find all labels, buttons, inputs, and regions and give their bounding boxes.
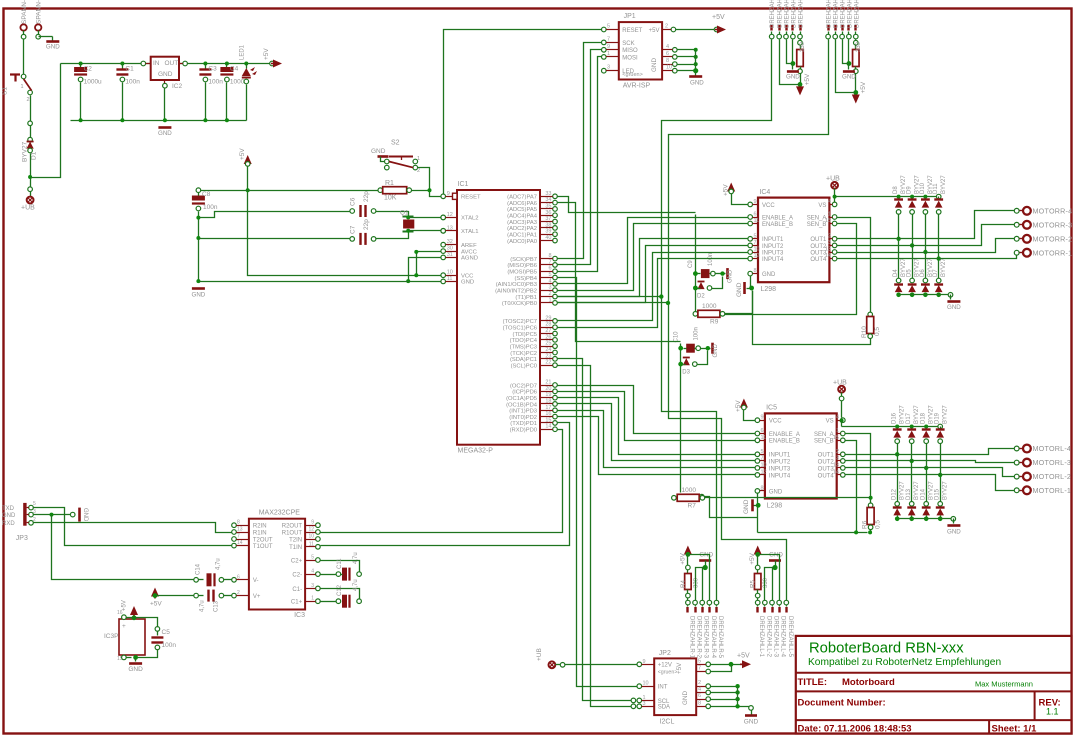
svg-text:13: 13 <box>237 527 243 533</box>
svg-text:JP3: JP3 <box>16 535 28 542</box>
svg-text:35: 35 <box>545 203 551 209</box>
svg-text:INPUT1: INPUT1 <box>769 453 791 459</box>
svg-text:T2IN: T2IN <box>289 537 302 543</box>
svg-text:(MISO)PB6: (MISO)PB6 <box>507 263 537 269</box>
svg-text:BYV27: BYV27 <box>914 481 920 500</box>
svg-text:Sheet: 1/1: Sheet: 1/1 <box>992 724 1038 735</box>
svg-text:MISO: MISO <box>622 48 638 54</box>
svg-text:D9: D9 <box>907 186 913 194</box>
svg-text:IC4: IC4 <box>759 189 770 196</box>
svg-text:DREHZAHLR-4: DREHZAHLR-4 <box>791 0 797 28</box>
svg-text:D10: D10 <box>920 182 926 194</box>
svg-text:0,5: 0,5 <box>875 520 882 529</box>
svg-text:GND: GND <box>744 719 759 726</box>
svg-text:C3: C3 <box>208 66 217 73</box>
svg-text:C2-: C2- <box>292 573 302 579</box>
svg-text:22p: 22p <box>363 191 370 202</box>
svg-text:C10: C10 <box>673 331 679 343</box>
svg-text:20: 20 <box>545 386 551 392</box>
svg-text:D7: D7 <box>933 269 939 277</box>
svg-text:GND: GND <box>682 691 689 705</box>
svg-text:4: 4 <box>311 569 314 575</box>
svg-text:(OC1B)PD4: (OC1B)PD4 <box>506 402 538 408</box>
svg-text:<gruen>: <gruen> <box>658 670 678 676</box>
svg-text:DREHZAHLL-4: DREHZAHLL-4 <box>847 0 853 28</box>
svg-text:1: 1 <box>417 156 420 162</box>
svg-text:BYV27: BYV27 <box>943 481 949 500</box>
svg-text:ENABLE_B: ENABLE_B <box>769 439 800 445</box>
svg-text:OUT1: OUT1 <box>818 453 835 459</box>
svg-text:1000u: 1000u <box>84 79 102 86</box>
svg-text:2: 2 <box>665 24 668 30</box>
svg-text:12: 12 <box>761 469 767 475</box>
svg-text:10: 10 <box>308 534 314 540</box>
svg-text:C1-: C1- <box>292 587 302 593</box>
svg-text:+UB: +UB <box>833 380 847 387</box>
svg-text:DREHZAHLL-1: DREHZAHLL-1 <box>758 616 764 658</box>
svg-text:INPUT3: INPUT3 <box>769 466 791 472</box>
svg-text:C1: C1 <box>125 66 134 73</box>
svg-text:R7: R7 <box>688 503 697 510</box>
svg-text:4,7u: 4,7u <box>353 579 359 591</box>
svg-text:7: 7 <box>548 259 551 265</box>
svg-text:+5V: +5V <box>749 552 756 564</box>
svg-text:MEGA32-P: MEGA32-P <box>458 448 494 455</box>
svg-text:32: 32 <box>447 239 453 245</box>
svg-text:OUT4: OUT4 <box>818 473 835 479</box>
svg-text:R1IN: R1IN <box>253 530 267 536</box>
svg-text:(TOSC1)PC6: (TOSC1)PC6 <box>503 326 537 332</box>
svg-text:(TMS)PC3: (TMS)PC3 <box>510 344 537 350</box>
svg-text:+5V: +5V <box>263 48 270 60</box>
svg-text:BYV27: BYV27 <box>941 258 947 277</box>
svg-text:3: 3 <box>311 583 314 589</box>
svg-text:ENABLE_A: ENABLE_A <box>762 215 793 221</box>
svg-text:D5: D5 <box>907 269 913 277</box>
svg-text:SPANN-2: SPANN-2 <box>36 0 43 24</box>
svg-text:GND: GND <box>158 71 173 78</box>
svg-text:VCC: VCC <box>769 419 782 425</box>
svg-text:(AIN0/INT2)PB2: (AIN0/INT2)PB2 <box>495 289 537 295</box>
svg-text:34: 34 <box>545 197 551 203</box>
svg-text:D4: D4 <box>893 269 899 277</box>
svg-text:VS: VS <box>818 203 826 209</box>
svg-text:10K: 10K <box>384 195 397 202</box>
svg-text:C6: C6 <box>350 197 357 206</box>
svg-text:AGND: AGND <box>461 256 478 262</box>
svg-text:R10: R10 <box>861 326 868 338</box>
svg-text:GND: GND <box>46 44 60 51</box>
svg-text:4: 4 <box>666 44 669 50</box>
svg-text:(OC2)PD7: (OC2)PD7 <box>510 383 537 389</box>
svg-text:2: 2 <box>698 680 701 686</box>
svg-text:R6: R6 <box>862 520 869 529</box>
svg-text:T1IN: T1IN <box>289 545 302 551</box>
svg-text:31: 31 <box>447 252 453 258</box>
svg-text:VS: VS <box>826 419 834 425</box>
svg-text:11: 11 <box>309 541 314 547</box>
svg-text:DREHZAHLR-4: DREHZAHLR-4 <box>710 616 716 659</box>
svg-text:SPANN-1: SPANN-1 <box>21 0 28 24</box>
svg-text:10: 10 <box>754 247 760 253</box>
svg-text:+5V: +5V <box>860 81 867 93</box>
svg-text:BYV27: BYV27 <box>900 405 906 424</box>
svg-text:DREHZAHLL-2: DREHZAHLL-2 <box>834 0 840 28</box>
svg-text:36: 36 <box>545 210 551 216</box>
svg-text:16: 16 <box>545 411 551 417</box>
svg-text:DREHZAHLL-3: DREHZAHLL-3 <box>841 0 847 28</box>
svg-text:5: 5 <box>548 272 551 278</box>
svg-text:4: 4 <box>548 278 551 284</box>
svg-text:D1: D1 <box>31 151 38 160</box>
svg-text:BYV27: BYV27 <box>22 141 29 162</box>
svg-text:MOTORL-3: MOTORL-3 <box>1033 458 1072 467</box>
svg-text:(SDA)PC1: (SDA)PC1 <box>510 357 537 363</box>
svg-text:5: 5 <box>607 24 610 30</box>
svg-text:R5: R5 <box>750 580 757 588</box>
svg-text:SCK: SCK <box>622 41 634 47</box>
svg-text:(TCK)PC2: (TCK)PC2 <box>510 351 537 357</box>
svg-text:4: 4 <box>698 686 701 692</box>
svg-text:INPUT3: INPUT3 <box>762 250 784 256</box>
svg-text:(TXD)PD1: (TXD)PD1 <box>510 421 537 427</box>
svg-text:(ADC4)PA4: (ADC4)PA4 <box>507 214 538 220</box>
svg-text:C9: C9 <box>688 260 694 268</box>
svg-text:MOTORL-2: MOTORL-2 <box>1033 472 1072 481</box>
svg-text:(ICP)PD6: (ICP)PD6 <box>512 390 537 396</box>
svg-text:RESET: RESET <box>622 28 642 34</box>
svg-text:+UB: +UB <box>826 176 840 183</box>
svg-text:1: 1 <box>311 596 314 602</box>
svg-text:+5V: +5V <box>649 28 660 34</box>
svg-text:11: 11 <box>761 435 767 441</box>
svg-text:D17: D17 <box>906 412 912 424</box>
svg-text:(ADC6)PA6: (ADC6)PA6 <box>507 201 537 207</box>
svg-text:D18: D18 <box>921 412 927 424</box>
svg-text:D13: D13 <box>906 488 912 500</box>
svg-text:(SS)PB4: (SS)PB4 <box>514 276 537 282</box>
svg-text:INPUT1: INPUT1 <box>762 237 784 243</box>
svg-text:SEN_A: SEN_A <box>807 215 827 221</box>
svg-text:14: 14 <box>237 540 243 546</box>
svg-text:7: 7 <box>761 455 764 461</box>
svg-text:+5V: +5V <box>737 653 750 660</box>
svg-text:4: 4 <box>828 199 831 205</box>
svg-text:6: 6 <box>548 266 551 272</box>
svg-text:10: 10 <box>447 270 453 276</box>
svg-text:17: 17 <box>545 405 551 411</box>
svg-text:9: 9 <box>447 191 450 197</box>
svg-text:13: 13 <box>447 225 453 231</box>
svg-text:MOTORR-2: MOTORR-2 <box>1033 234 1073 243</box>
svg-text:BYV27: BYV27 <box>900 481 906 500</box>
svg-text:GND: GND <box>947 304 961 311</box>
svg-text:5: 5 <box>754 233 757 239</box>
svg-text:100n: 100n <box>203 204 218 211</box>
svg-text:GND: GND <box>736 282 743 297</box>
svg-text:6: 6 <box>698 693 701 699</box>
svg-text:(TDO)PC4: (TDO)PC4 <box>510 338 538 344</box>
svg-text:14: 14 <box>545 424 551 430</box>
svg-text:(SCK)PB7: (SCK)PB7 <box>510 257 537 263</box>
svg-text:11: 11 <box>447 276 453 282</box>
svg-text:BYV27: BYV27 <box>914 405 920 424</box>
svg-text:(INT1)PD3: (INT1)PD3 <box>509 409 537 415</box>
svg-text:GND: GND <box>158 130 172 137</box>
svg-text:ENABLE_B: ENABLE_B <box>762 222 793 228</box>
svg-text:ENABLE_A: ENABLE_A <box>769 432 800 438</box>
svg-text:V-: V- <box>253 578 259 584</box>
svg-text:XTAL1: XTAL1 <box>461 229 479 235</box>
svg-text:Motorboard: Motorboard <box>842 677 895 688</box>
svg-text:IC3P: IC3P <box>104 633 118 640</box>
svg-text:(OC1A)PD5: (OC1A)PD5 <box>506 396 537 402</box>
svg-text:Kompatibel zu RoboterNetz Empf: Kompatibel zu RoboterNetz Empfehlungen <box>808 657 1001 668</box>
svg-text:C2+: C2+ <box>291 558 303 564</box>
svg-text:11: 11 <box>754 218 760 224</box>
svg-text:GND: GND <box>728 269 734 283</box>
svg-text:S1: S1 <box>2 87 9 95</box>
svg-text:(SCL)PC0: (SCL)PC0 <box>511 363 537 369</box>
svg-text:14: 14 <box>833 469 839 475</box>
svg-text:OUT4: OUT4 <box>810 257 827 263</box>
svg-text:INPUT4: INPUT4 <box>769 473 791 479</box>
svg-text:6: 6 <box>761 428 764 434</box>
svg-text:DREHZAHLR-5: DREHZAHLR-5 <box>717 616 723 659</box>
svg-text:2: 2 <box>836 449 839 455</box>
svg-text:SDA: SDA <box>658 705 670 711</box>
svg-text:8: 8 <box>237 520 240 526</box>
svg-text:MOTORR-1: MOTORR-1 <box>1033 248 1073 257</box>
svg-text:D15: D15 <box>935 488 941 500</box>
svg-text:GND: GND <box>713 344 719 358</box>
svg-text:2: 2 <box>237 590 240 596</box>
svg-text:GND: GND <box>461 280 474 286</box>
svg-text:100n: 100n <box>708 253 714 266</box>
svg-text:2: 2 <box>417 168 420 174</box>
svg-text:D14: D14 <box>921 488 927 500</box>
svg-text:10: 10 <box>666 65 672 71</box>
svg-text:D3: D3 <box>682 370 690 376</box>
svg-text:GND: GND <box>762 272 776 278</box>
svg-text:+5V: +5V <box>239 148 246 160</box>
svg-text:7: 7 <box>607 36 610 42</box>
svg-text:DREHZAHLL-3: DREHZAHLL-3 <box>773 616 779 658</box>
svg-text:1: 1 <box>607 51 610 57</box>
svg-text:330: 330 <box>693 577 699 588</box>
svg-text:C2: C2 <box>84 66 93 73</box>
svg-text:26: 26 <box>545 334 551 340</box>
svg-text:GND: GND <box>192 292 206 299</box>
svg-text:7: 7 <box>237 534 240 540</box>
svg-text:INT: INT <box>658 685 668 691</box>
svg-text:4,7u: 4,7u <box>200 600 206 612</box>
svg-text:Q1: Q1 <box>400 210 409 217</box>
svg-text:DREHZAHLL-5: DREHZAHLL-5 <box>787 616 793 658</box>
svg-text:VCC: VCC <box>762 203 775 209</box>
svg-text:MOTORL-1: MOTORL-1 <box>1033 486 1072 495</box>
svg-text:BYV27: BYV27 <box>943 405 949 424</box>
svg-text:MOTORR-4: MOTORR-4 <box>1033 206 1073 215</box>
svg-text:DREHZAHLR-2: DREHZAHLR-2 <box>696 616 702 659</box>
svg-text:(T1)PB1: (T1)PB1 <box>515 295 537 301</box>
svg-text:GND: GND <box>743 499 750 514</box>
svg-text:5: 5 <box>33 501 36 507</box>
svg-text:4,7u: 4,7u <box>353 552 359 564</box>
svg-text:DREHZAHLR-5: DREHZAHLR-5 <box>799 0 805 28</box>
svg-text:C4: C4 <box>230 66 239 73</box>
svg-text:(INT0)PD2: (INT0)PD2 <box>509 415 537 421</box>
svg-text:6: 6 <box>237 574 240 580</box>
svg-text:IC5: IC5 <box>766 405 777 412</box>
svg-text:+5V: +5V <box>150 601 162 608</box>
svg-text:+UB: +UB <box>536 648 543 661</box>
svg-text:28: 28 <box>545 322 551 328</box>
svg-text:RoboterBoard RBN-xxx: RoboterBoard RBN-xxx <box>809 641 964 657</box>
svg-text:330: 330 <box>800 41 806 52</box>
svg-text:2: 2 <box>27 97 30 103</box>
svg-text:100n: 100n <box>208 79 223 86</box>
svg-text:3: 3 <box>548 285 551 291</box>
svg-text:SEN_A: SEN_A <box>814 432 834 438</box>
svg-text:12: 12 <box>754 253 760 259</box>
svg-text:(ADC0)PA0: (ADC0)PA0 <box>507 239 537 245</box>
svg-text:T2OUT: T2OUT <box>253 537 273 543</box>
svg-text:(RXD)PD0: (RXD)PD0 <box>510 428 537 434</box>
svg-text:10: 10 <box>761 462 767 468</box>
svg-text:R1: R1 <box>385 180 394 187</box>
svg-text:+5V: +5V <box>122 600 128 611</box>
svg-text:25: 25 <box>545 341 551 347</box>
svg-text:D16: D16 <box>892 412 898 424</box>
svg-text:9: 9 <box>607 44 610 50</box>
svg-text:1: 1 <box>836 428 839 434</box>
svg-text:<gruen>: <gruen> <box>622 72 643 78</box>
svg-text:DREHZAHLR-3: DREHZAHLR-3 <box>785 0 791 28</box>
svg-text:OUT2: OUT2 <box>818 459 835 465</box>
svg-text:22: 22 <box>545 360 551 366</box>
svg-text:100n: 100n <box>693 327 699 340</box>
svg-text:MOSI: MOSI <box>622 55 638 61</box>
svg-text:(AIN1/OC0)PB3: (AIN1/OC0)PB3 <box>496 282 537 288</box>
svg-text:AVR-ISP: AVR-ISP <box>623 83 651 90</box>
svg-text:MAX232CPE: MAX232CPE <box>259 510 301 517</box>
svg-text:3: 3 <box>607 65 610 71</box>
svg-text:T1OUT: T1OUT <box>253 544 273 550</box>
svg-text:AREF: AREF <box>461 243 477 249</box>
svg-text:5: 5 <box>311 555 314 561</box>
svg-text:C7: C7 <box>350 225 357 234</box>
svg-text:GND: GND <box>947 529 961 536</box>
svg-text:S2: S2 <box>391 140 400 147</box>
svg-text:DREHZAHLL-4: DREHZAHLL-4 <box>780 616 786 658</box>
svg-text:RXD: RXD <box>2 521 15 527</box>
svg-text:1000: 1000 <box>702 303 717 310</box>
svg-text:8: 8 <box>698 700 701 706</box>
svg-text:DREHZAHLL-1: DREHZAHLL-1 <box>827 0 833 28</box>
svg-text:18: 18 <box>545 398 551 404</box>
svg-text:D8: D8 <box>893 186 899 194</box>
svg-text:10: 10 <box>643 681 649 687</box>
svg-text:5: 5 <box>761 449 764 455</box>
svg-text:+5V: +5V <box>735 400 742 412</box>
svg-text:C11: C11 <box>337 558 343 569</box>
svg-text:OUT1: OUT1 <box>810 237 827 243</box>
svg-text:19: 19 <box>545 392 551 398</box>
svg-text:100n: 100n <box>162 642 177 649</box>
svg-text:JP1: JP1 <box>624 13 636 20</box>
svg-text:C1+: C1+ <box>291 600 303 606</box>
svg-text:1000: 1000 <box>682 487 697 494</box>
svg-text:12: 12 <box>447 212 453 218</box>
svg-text:D6: D6 <box>920 269 926 277</box>
svg-text:(TDI)PC5: (TDI)PC5 <box>513 332 537 338</box>
svg-text:Max Mustermann: Max Mustermann <box>975 680 1033 689</box>
svg-text:IN: IN <box>153 60 160 67</box>
svg-text:Date: 07.11.2006 18:48:53: Date: 07.11.2006 18:48:53 <box>798 724 912 735</box>
svg-text:6: 6 <box>754 212 757 218</box>
svg-text:29: 29 <box>545 315 551 321</box>
svg-text:OUT3: OUT3 <box>818 466 835 472</box>
svg-text:(MOSI)PB5: (MOSI)PB5 <box>507 270 537 276</box>
svg-text:+5V: +5V <box>804 73 811 85</box>
svg-text:I2CL: I2CL <box>660 719 675 726</box>
svg-text:R2OUT: R2OUT <box>282 524 303 530</box>
svg-text:D12: D12 <box>892 488 898 500</box>
svg-text:38: 38 <box>545 222 551 228</box>
svg-text:30: 30 <box>447 246 453 252</box>
svg-text:TXD: TXD <box>2 506 15 512</box>
svg-text:LED1: LED1 <box>240 44 246 60</box>
svg-text:(ADC5)PA5: (ADC5)PA5 <box>507 207 537 213</box>
svg-text:INPUT4: INPUT4 <box>762 257 784 263</box>
svg-text:4,7u: 4,7u <box>216 558 222 570</box>
svg-text:VCC: VCC <box>461 274 474 280</box>
svg-text:DREHZAHLR-1: DREHZAHLR-1 <box>770 0 776 28</box>
svg-text:INPUT2: INPUT2 <box>762 244 784 250</box>
svg-text:C5: C5 <box>162 629 171 636</box>
svg-text:27: 27 <box>545 328 551 334</box>
svg-text:C14: C14 <box>196 563 202 575</box>
svg-text:2: 2 <box>548 291 551 297</box>
svg-text:Document Number:: Document Number: <box>798 698 886 709</box>
svg-text:MOTORR-3: MOTORR-3 <box>1033 220 1073 229</box>
svg-text:23: 23 <box>545 353 551 359</box>
svg-text:JP2: JP2 <box>659 650 671 657</box>
svg-text:0,5: 0,5 <box>874 327 881 336</box>
svg-text:R4: R4 <box>680 580 687 588</box>
svg-text:DREHZAHLR-3: DREHZAHLR-3 <box>703 616 709 659</box>
svg-text:8: 8 <box>548 253 551 259</box>
svg-text:(TOSC2)PC7: (TOSC2)PC7 <box>503 319 537 325</box>
svg-text:RESET: RESET <box>461 195 481 201</box>
svg-text:R1OUT: R1OUT <box>282 530 303 536</box>
svg-text:3: 3 <box>643 701 646 707</box>
svg-text:+UB: +UB <box>21 205 35 212</box>
svg-text:1: 1 <box>828 212 831 218</box>
svg-text:INPUT2: INPUT2 <box>769 459 791 465</box>
svg-text:IC2: IC2 <box>172 83 183 90</box>
svg-text:R9: R9 <box>710 319 719 326</box>
svg-text:D11: D11 <box>933 183 939 194</box>
svg-text:+5V: +5V <box>676 662 683 674</box>
svg-text:100n: 100n <box>125 79 140 86</box>
svg-text:(ADC1)PA1: (ADC1)PA1 <box>507 233 537 239</box>
svg-text:D2: D2 <box>697 294 705 300</box>
svg-text:GND: GND <box>128 666 143 673</box>
svg-text:9: 9 <box>761 415 764 421</box>
svg-text:GND: GND <box>371 148 386 155</box>
